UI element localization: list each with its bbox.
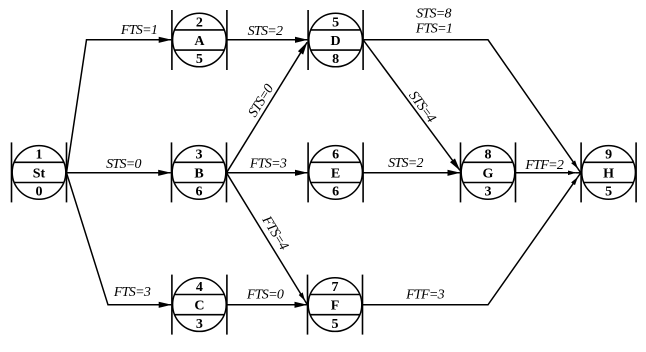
node A — [172, 10, 227, 70]
svg-text:6: 6 — [332, 185, 339, 200]
svg-text:D: D — [331, 34, 341, 49]
svg-text:H: H — [603, 166, 614, 181]
wire A to D with arrowhead — [227, 39, 308, 41]
wire St to A (bend) with arrowhead — [67, 40, 172, 173]
svg-text:STS=0: STS=0 — [106, 157, 141, 172]
svg-text:2: 2 — [196, 15, 203, 30]
svg-text:5: 5 — [332, 15, 339, 30]
svg-text:9: 9 — [605, 148, 612, 163]
wire E to G with arrowhead — [363, 172, 460, 174]
svg-text:G: G — [483, 166, 494, 181]
svg-text:FTS=0: FTS=0 — [246, 287, 284, 302]
node F — [308, 275, 363, 335]
node C — [172, 275, 227, 335]
svg-text:STS=2: STS=2 — [388, 156, 423, 171]
wire F to H (bend) with arrowhead — [363, 177, 578, 304]
svg-text:STS=8: STS=8 — [416, 7, 451, 22]
wire G to H with arrowhead — [516, 172, 576, 174]
node G — [461, 142, 516, 202]
node St — [12, 142, 67, 202]
node E — [308, 142, 363, 202]
svg-text:E: E — [331, 166, 340, 181]
svg-text:8: 8 — [332, 52, 339, 67]
wire B to E with arrowhead — [227, 172, 308, 174]
svg-text:5: 5 — [196, 52, 203, 67]
node B — [172, 142, 227, 202]
svg-text:6: 6 — [196, 185, 203, 200]
node D — [308, 10, 363, 70]
node H — [581, 142, 636, 202]
svg-text:A: A — [194, 34, 205, 49]
svg-text:3: 3 — [485, 185, 492, 200]
wire St to C (bend) with arrowhead — [67, 173, 172, 305]
svg-text:5: 5 — [332, 317, 339, 332]
wire B to F diagonal with arrowhead — [227, 173, 305, 301]
wire D to G diagonal with arrowhead — [363, 40, 460, 171]
svg-text:F: F — [331, 299, 340, 314]
svg-text:STS=2: STS=2 — [248, 24, 283, 39]
wire St to B with arrowhead — [67, 172, 171, 174]
svg-text:6: 6 — [332, 148, 339, 163]
svg-text:0: 0 — [36, 185, 43, 200]
svg-text:3: 3 — [196, 317, 203, 332]
svg-text:3: 3 — [196, 148, 203, 163]
svg-text:B: B — [194, 166, 203, 181]
svg-text:8: 8 — [485, 148, 492, 163]
svg-text:5: 5 — [605, 185, 612, 200]
svg-text:St: St — [33, 166, 46, 181]
svg-text:FTS=1: FTS=1 — [120, 23, 157, 38]
svg-text:4: 4 — [196, 280, 203, 295]
svg-text:FTS=3: FTS=3 — [249, 156, 287, 171]
svg-text:7: 7 — [332, 280, 339, 295]
wire B to D diagonal with arrowhead — [227, 42, 308, 173]
wire D to H (bend) with arrowhead — [363, 40, 578, 169]
svg-text:1: 1 — [36, 148, 43, 163]
wire C to F with arrowhead — [227, 304, 307, 306]
svg-text:FTF=3: FTF=3 — [405, 287, 445, 302]
svg-text:C: C — [194, 299, 204, 314]
svg-text:FTS=3: FTS=3 — [113, 285, 151, 300]
svg-text:FTS=1: FTS=1 — [415, 22, 452, 37]
svg-text:FTF=2: FTF=2 — [524, 158, 564, 173]
